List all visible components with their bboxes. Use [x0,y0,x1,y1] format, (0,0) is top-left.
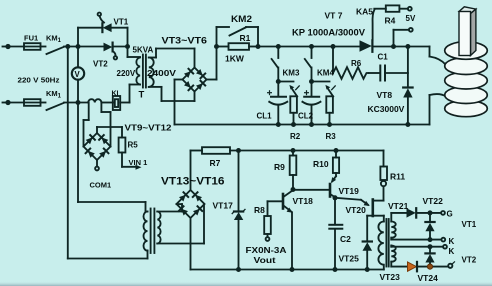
wire [10,46,25,48]
terminal K1 [441,238,445,242]
wire bridge right to bus [207,47,217,80]
node K1 [428,237,433,242]
induction coil [445,42,488,117]
svg-text:R7: R7 [210,158,221,168]
node bus-VT8 [405,44,410,49]
resistor R8 [264,201,282,241]
svg-text:R2: R2 [290,132,301,141]
node T-primary-top [125,44,130,49]
node rail3-VT25 [365,267,370,272]
svg-text:R5: R5 [128,141,139,150]
transformer T primary feed [128,47,141,58]
svg-text:R11: R11 [390,172,405,182]
svg-text:KM2: KM2 [231,14,252,24]
svg-text:VT2: VT2 [93,60,108,69]
terminal COM1 [95,160,99,170]
wire secondary top to bridge [149,49,195,68]
fuse FU2 [24,99,41,106]
svg-text:VT23: VT23 [380,272,401,282]
wire CT tap right [101,103,110,147]
wire [101,102,113,104]
connector circle [381,181,386,186]
gate of VT2 [114,52,118,60]
node rail-R2 [291,122,296,127]
node bus-KM3 [276,44,281,49]
svg-text:R3: R3 [326,132,337,141]
svg-text:5KVA: 5KVA [133,46,154,55]
resistor R7 [191,147,384,190]
svg-text:VT22: VT22 [423,196,444,206]
wire bus [258,46,359,48]
wire coil lead top [430,47,446,65]
wire [41,102,46,104]
fuse FU1 [24,43,41,50]
zener VT17 [232,151,245,270]
svg-text:VT20: VT20 [346,205,367,215]
control ground rail [191,269,384,271]
svg-text:KM4: KM4 [317,69,334,78]
node CL1-top [276,79,281,84]
wire secondary bottom to bridge [149,87,195,101]
node K2 [428,244,433,249]
node rail-CL1 [276,122,281,127]
resistor R4 [386,5,408,11]
rectifier bridge VT9~VT12 [84,133,111,160]
resistor R2 with trigger arrow [278,82,299,125]
terminal VIN1 [122,153,142,170]
switch KM2 bypass [217,27,259,47]
wire secondary bottom to bridge2 [157,204,204,243]
switch KM1 (bottom contact) [47,103,65,110]
wire bridge top to R5 [97,127,122,138]
svg-text:R10: R10 [313,159,329,169]
terminal K2 [443,245,447,249]
wire VT20 base [335,198,370,206]
thyristor VT7 [360,40,394,52]
switch KM3 [272,47,279,82]
capacitor C2 [329,198,342,270]
svg-text:VT19: VT19 [339,186,360,196]
svg-text:KC3000V: KC3000V [368,104,405,114]
switch KA5 gate [373,9,386,40]
capacitor C1 [369,66,408,81]
diode VT21 [391,208,441,221]
svg-text:Vout: Vout [254,255,276,265]
transformer T primary [136,58,140,85]
svg-text:T: T [139,90,145,101]
svg-text:KP 1000A/3000V: KP 1000A/3000V [292,28,365,38]
svg-text:VT21: VT21 [388,201,409,211]
resistor R5 [119,138,126,153]
node bus-R1 [256,44,261,49]
node C2-top [333,195,338,200]
svg-text:R4: R4 [385,16,396,26]
switch KM4 [305,47,312,82]
pulse transformer primary [378,222,383,270]
svg-text:VIN 1: VIN 1 [129,158,148,167]
svg-text:KI: KI [112,91,119,98]
node bus-aux [391,44,396,49]
wire left rail outer [68,47,148,259]
pulse transformer secondary 2 [391,246,395,262]
svg-text:COM1: COM1 [90,181,112,190]
pulse transformer secondary 1 [391,222,395,238]
svg-text:VT18: VT18 [293,196,314,206]
node bus-KM4 [309,44,314,49]
diode VT22 [425,213,434,240]
wire secondary top to bridge2 [157,204,182,211]
svg-text:VT13~VT16: VT13~VT16 [161,176,225,188]
svg-text:VT25: VT25 [339,254,360,264]
node bus-bridge [214,44,219,49]
node rail-VT8 [405,122,410,127]
node G1 [428,210,433,215]
svg-text:V: V [75,70,81,79]
transistor VT20 [367,186,384,221]
terminal L1 [3,45,10,48]
svg-text:KA5: KA5 [356,7,373,17]
svg-text:5V: 5V [406,14,416,23]
node rail2-R9 [291,148,296,153]
node rail2-R10 [334,148,339,153]
diode VT23 (orange) [391,262,447,272]
diode VT8 [403,47,412,125]
gate of VT1 [98,13,104,23]
resistor R1 [217,43,259,50]
wire bus [394,46,430,48]
node rail3-C2 [333,267,338,272]
node G2 (orange) [427,264,432,269]
control transformer core [151,209,155,254]
svg-text:220V: 220V [117,69,136,78]
control transformer primary [144,212,148,251]
diode VT25 [363,216,373,270]
svg-text:1KW: 1KW [225,54,245,64]
node rail3-VT17 [236,267,241,272]
resistor R3 with trigger arrow [312,82,336,125]
resistor R6 [333,47,369,79]
svg-text:K: K [449,247,455,256]
resistor R11 [380,151,387,181]
wire coil lead bottom [430,94,447,124]
wire [41,46,46,48]
wire K1 [391,238,441,240]
voltmeter V [72,47,84,103]
svg-text:220 V 50Hz: 220 V 50Hz [18,76,60,85]
relay coil KI [113,96,120,110]
svg-text:R6: R6 [351,59,362,68]
thyristor VT2 [104,43,128,52]
wire [64,46,103,48]
node rail2-VT17 [236,148,241,153]
node rail-CL2 [309,122,314,127]
svg-text:2400V: 2400V [147,69,177,78]
capacitor CL2 [303,82,321,125]
resistor R9 [290,151,297,190]
wire [64,102,88,104]
svg-text:R9: R9 [274,162,285,172]
DC- rail [175,124,430,126]
current transformer humps [88,99,101,102]
rectifier bridge VT13~VT16 [177,190,205,218]
control transformer secondary [157,212,160,244]
svg-text:C1: C1 [378,53,389,62]
wire VT1 branch [78,28,128,47]
svg-text:VT3~VT6: VT3~VT6 [162,36,208,46]
pulse transformer core [386,219,388,267]
capacitor CL1 [268,82,288,125]
node line2-B [76,100,81,105]
diode VT24 [425,247,434,267]
svg-text:G: G [447,210,453,219]
node bus-R6 [331,44,336,49]
transformer T core [143,55,146,88]
svg-text:FX0N-3A: FX0N-3A [246,246,287,255]
node line1-A [65,44,70,49]
rectifier bridge VT3~VT6 [183,68,207,92]
svg-text:KM3: KM3 [283,69,300,78]
svg-text:VT1: VT1 [462,220,477,229]
node line1-B [76,44,81,49]
terminal L2 [3,101,10,104]
wire [10,102,25,104]
node rail-R3 [327,122,332,127]
terminal aux [394,28,413,47]
wire K2 [391,246,443,247]
svg-text:VT17: VT17 [213,201,234,211]
wire bridge2 bottom [190,218,192,270]
node CL2-top [309,79,314,84]
svg-text:FU1: FU1 [24,34,38,43]
switch KM1 (top contact) [47,47,65,54]
svg-text:VT 7: VT 7 [325,11,343,21]
svg-text:K: K [449,237,455,246]
resistor R10 [333,151,339,177]
thyristor VT1 [102,23,111,32]
bottom edge shading [0,281,492,286]
terminal G1 [441,211,445,215]
terminal 5V [408,7,412,11]
svg-text:VT8: VT8 [377,90,393,100]
terminal G2 [448,262,454,268]
svg-text:VT9~VT12: VT9~VT12 [125,123,172,133]
wire left rail inner [78,103,148,212]
workpiece bar [459,7,476,56]
svg-text:CL2: CL2 [298,112,314,121]
wire [120,85,140,103]
transformer T secondary [149,58,154,87]
svg-text:R8: R8 [254,205,265,215]
transistor VT18 [283,190,293,269]
node rail3-VT18 [290,267,295,272]
svg-text:VT1: VT1 [114,18,129,27]
svg-text:C2: C2 [340,234,351,244]
svg-text:VT2: VT2 [462,256,477,265]
svg-text:CL1: CL1 [257,112,273,121]
wire bridge left to DC- rail [175,80,183,125]
node VT18-collector [291,187,296,192]
svg-text:R1: R1 [240,33,251,43]
wire CT tap left [84,103,89,147]
transistor VT19 [293,176,336,197]
